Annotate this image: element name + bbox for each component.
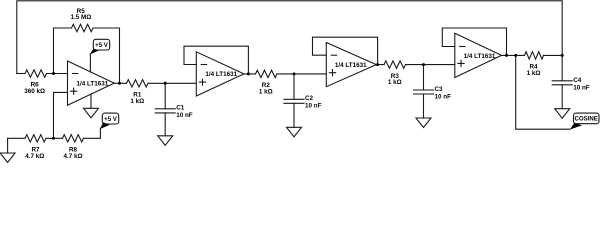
svg-text:1 kΩ: 1 kΩ xyxy=(259,88,273,95)
wire op1 noninverting input drop xyxy=(54,92,68,138)
svg-text:+5 V: +5 V xyxy=(95,42,109,49)
svg-text:4.7 kΩ: 4.7 kΩ xyxy=(25,153,44,160)
node op3 output xyxy=(376,63,379,66)
node C4/R4 xyxy=(561,54,564,57)
ground C4 xyxy=(555,109,570,119)
svg-text:+5 V: +5 V xyxy=(104,116,118,123)
ground bottom-left xyxy=(7,138,9,153)
svg-text:1/4 LT1631: 1/4 LT1631 xyxy=(77,81,109,88)
wire op3 output row xyxy=(376,64,455,66)
ground C1 xyxy=(158,136,173,146)
svg-text:1 kΩ: 1 kΩ xyxy=(527,70,541,77)
resistor R6 xyxy=(25,70,47,77)
svg-text:10 nF: 10 nF xyxy=(573,84,590,91)
svg-text:1 kΩ: 1 kΩ xyxy=(130,98,144,105)
svg-text:10 nF: 10 nF xyxy=(305,103,322,110)
node cosine tap xyxy=(514,54,517,57)
node op1 output xyxy=(118,82,121,85)
ground op1 V- pin xyxy=(90,94,92,108)
node C2/R2 xyxy=(293,72,296,75)
op-amp U3 1/4 LT1631 xyxy=(326,43,376,87)
svg-text:C2: C2 xyxy=(305,95,314,102)
capacitor C4 xyxy=(561,55,563,80)
wire cosine output tap xyxy=(516,55,570,129)
resistor R1 xyxy=(127,80,149,87)
svg-text:C4: C4 xyxy=(573,77,582,84)
flag +5 V (bias) xyxy=(102,113,118,124)
wire op4 output row xyxy=(502,54,563,56)
svg-text:10 nF: 10 nF xyxy=(176,112,193,119)
resistor R3 xyxy=(384,61,406,68)
flag +5 V (op1 supply) xyxy=(93,39,109,50)
node op4 feedback xyxy=(505,54,508,57)
flag tail +5V bottom xyxy=(100,122,110,129)
capacitor C2 xyxy=(293,74,295,99)
svg-text:1/4 LT1631: 1/4 LT1631 xyxy=(335,62,367,69)
ground C2 xyxy=(287,127,302,137)
ground C3 xyxy=(416,118,431,128)
resistor R8 xyxy=(63,135,84,142)
svg-text:1/4 LT1631: 1/4 LT1631 xyxy=(205,71,237,78)
svg-text:1/4 LT1631: 1/4 LT1631 xyxy=(464,53,496,60)
op-amp U2 1/4 LT1631 xyxy=(196,52,244,96)
svg-text:10 nF: 10 nF xyxy=(435,93,452,100)
wire op1 output row xyxy=(114,82,196,84)
resistor R7 xyxy=(25,135,46,142)
node op2 output xyxy=(247,72,250,75)
wire main feedback loop top xyxy=(17,1,562,74)
node C3/R3 xyxy=(422,63,425,66)
svg-text:4.7 kΩ: 4.7 kΩ xyxy=(63,153,82,160)
svg-text:1 kΩ: 1 kΩ xyxy=(388,79,402,86)
op-amp U1 1/4 LT1631 xyxy=(68,61,115,105)
wire op2 feedback loop xyxy=(184,46,248,74)
node C1/R1 xyxy=(164,82,167,85)
node COSINE flag xyxy=(574,113,600,124)
wire +5V to op1 V+ pin xyxy=(89,54,91,72)
svg-text:360 kΩ: 360 kΩ xyxy=(24,88,45,95)
flag tail COSINE xyxy=(570,123,582,130)
node op1 inverting input xyxy=(52,72,55,75)
svg-text:1.5 MΩ: 1.5 MΩ xyxy=(70,14,91,21)
wire op2 output row xyxy=(244,73,326,75)
resistor R2 xyxy=(256,70,278,77)
op-amp U4 1/4 LT1631 xyxy=(455,33,502,77)
wire op1 inverting input row xyxy=(17,73,68,75)
wire R5 feedback loop xyxy=(54,28,120,83)
node R7/R8 junction xyxy=(52,137,55,140)
svg-text:COSINE: COSINE xyxy=(575,116,598,123)
svg-text:C1: C1 xyxy=(176,104,185,111)
wire op4 feedback loop xyxy=(442,28,506,55)
capacitor C3 xyxy=(423,65,425,90)
wire bottom bias row xyxy=(8,129,101,138)
svg-text:C3: C3 xyxy=(435,86,444,93)
wire op3 feedback loop xyxy=(313,37,378,64)
capacitor C1 xyxy=(164,83,166,109)
flag tail +5V top xyxy=(90,49,100,55)
resistor R4 xyxy=(525,52,544,59)
resistor R5 xyxy=(72,24,94,31)
